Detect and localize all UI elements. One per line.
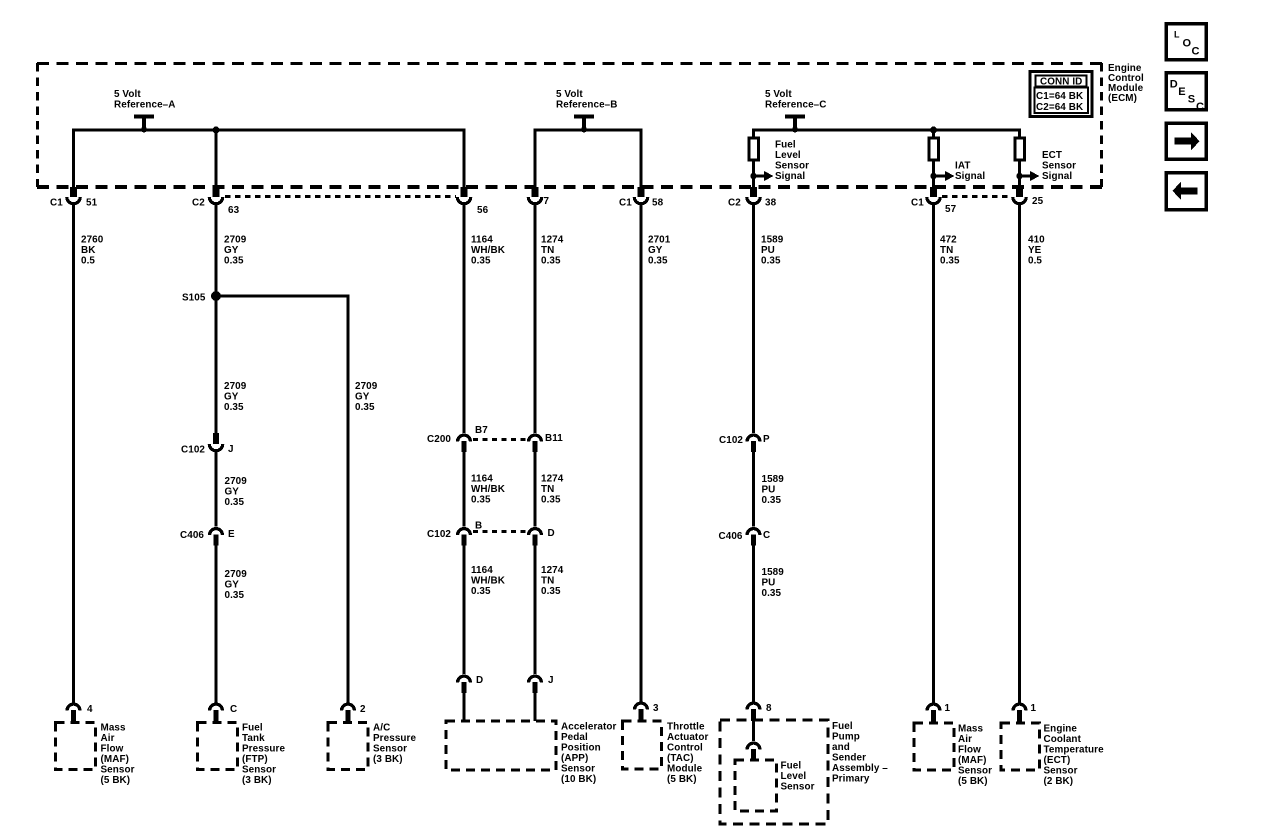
svg-text:TN: TN <box>541 484 554 495</box>
wire 1164 WH/BK 0.35 label (mid) <box>471 474 506 506</box>
svg-text:2709: 2709 <box>355 381 378 392</box>
svg-text:Control: Control <box>667 743 703 754</box>
svg-text:472: 472 <box>940 235 957 246</box>
wire inside fuel pump assembly <box>752 720 755 741</box>
svg-text:GY: GY <box>648 245 663 256</box>
svg-text:B11: B11 <box>545 433 563 444</box>
svg-text:(APP): (APP) <box>561 753 588 764</box>
svg-text:ECT: ECT <box>1042 150 1062 161</box>
svg-text:S: S <box>1188 94 1195 106</box>
wire 1274 TN 0.35 label (mid) <box>541 474 564 506</box>
svg-text:Reference–A: Reference–A <box>114 100 175 111</box>
svg-text:1274: 1274 <box>541 235 564 246</box>
wire 472 TN 0.35 label <box>940 235 960 267</box>
svg-text:D: D <box>548 528 555 539</box>
svg-text:Sensor: Sensor <box>242 765 276 776</box>
svg-text:0.35: 0.35 <box>471 256 491 267</box>
connector C2 pin 63 <box>209 187 222 204</box>
svg-text:C1: C1 <box>50 198 63 209</box>
terminal 8 (fuel pump assembly) <box>747 703 760 721</box>
svg-text:TN: TN <box>940 245 953 256</box>
resistor element (ECT sense) <box>1015 138 1025 160</box>
svg-text:WH/BK: WH/BK <box>471 576 506 587</box>
svg-text:(ECM): (ECM) <box>1108 93 1137 104</box>
wire col2 C406 E to FTP <box>215 546 218 703</box>
ECM label <box>1108 63 1144 104</box>
svg-text:Mass: Mass <box>958 724 984 735</box>
connector C406 pin C <box>747 529 760 546</box>
svg-text:Module: Module <box>667 764 703 775</box>
svg-text:C: C <box>1192 46 1200 58</box>
node: wire A / C2 column junction <box>213 127 220 134</box>
wire 1589 PU 0.35 label (mid) <box>762 474 785 506</box>
svg-text:Tank: Tank <box>242 733 265 744</box>
svg-text:0.35: 0.35 <box>762 495 782 506</box>
svg-text:J: J <box>548 675 554 686</box>
svg-text:and: and <box>832 742 850 753</box>
svg-text:Engine: Engine <box>1044 724 1078 735</box>
A/C pressure sensor box <box>328 723 368 770</box>
svg-text:Sender: Sender <box>832 753 866 764</box>
svg-text:C406: C406 <box>719 531 743 542</box>
svg-text:0.35: 0.35 <box>471 495 491 506</box>
wire 2709 GY 0.35 label (E-C) <box>225 569 248 601</box>
svg-text:0.5: 0.5 <box>81 256 95 267</box>
svg-text:(FTP): (FTP) <box>242 754 268 765</box>
svg-text:5 Volt: 5 Volt <box>556 89 583 100</box>
svg-text:0.35: 0.35 <box>541 495 561 506</box>
svg-text:Sensor: Sensor <box>1042 161 1076 172</box>
terminal 3 (TAC module) <box>635 703 648 722</box>
svg-text:1589: 1589 <box>762 567 785 578</box>
svg-text:C2: C2 <box>192 198 205 209</box>
wire col5 (2701 GY) <box>640 205 643 702</box>
svg-text:Fuel: Fuel <box>242 723 263 734</box>
svg-text:GY: GY <box>225 580 240 591</box>
svg-text:2709: 2709 <box>225 569 248 580</box>
MAF sensor box (left) <box>56 723 96 770</box>
svg-text:Level: Level <box>781 771 807 782</box>
svg-text:1274: 1274 <box>541 474 564 485</box>
svg-text:57: 57 <box>945 204 957 215</box>
wire terminal J to APP box <box>534 692 537 721</box>
connector C102 pin B <box>458 529 471 546</box>
ECM dashed box (Engine Control Module outline) <box>37 63 1102 187</box>
svg-text:Flow: Flow <box>101 744 124 755</box>
svg-text:(MAF): (MAF) <box>101 754 129 765</box>
svg-text:C1: C1 <box>619 198 632 209</box>
svg-text:Actuator: Actuator <box>667 732 708 743</box>
svg-text:(3 BK): (3 BK) <box>373 754 403 765</box>
wire col2 S105 to C102 J <box>215 296 218 433</box>
wire 1274 TN 0.35 label (top) <box>541 235 564 267</box>
svg-text:WH/BK: WH/BK <box>471 484 506 495</box>
svg-text:C102: C102 <box>427 529 451 540</box>
svg-text:410: 410 <box>1028 235 1045 246</box>
svg-text:0.35: 0.35 <box>762 588 782 599</box>
svg-text:Accelerator: Accelerator <box>561 722 616 733</box>
splice S105 <box>211 291 221 301</box>
svg-text:J: J <box>228 444 234 455</box>
connector C102 pin J <box>209 433 222 451</box>
svg-text:2: 2 <box>360 704 366 715</box>
dotted link C1 57 to 25 <box>942 195 1011 198</box>
wire col8 (410 YE) <box>1018 205 1021 703</box>
svg-text:C1: C1 <box>911 198 924 209</box>
svg-text:D: D <box>476 675 483 686</box>
svg-text:BK: BK <box>81 245 96 256</box>
svg-text:0.35: 0.35 <box>225 590 245 601</box>
svg-text:3: 3 <box>653 703 659 714</box>
svg-text:E: E <box>228 529 235 540</box>
svg-text:P: P <box>763 434 770 445</box>
svg-text:1589: 1589 <box>761 235 784 246</box>
wire branch S105 to A/C column <box>216 296 348 703</box>
svg-text:1164: 1164 <box>471 474 493 485</box>
dotted link C2 63 to 56 <box>225 195 456 198</box>
wire col4 B11 to D <box>534 452 537 527</box>
svg-text:B: B <box>475 521 482 532</box>
wire 410 YE 0.5 label <box>1028 235 1045 267</box>
svg-text:C: C <box>1196 101 1204 113</box>
svg-text:C102: C102 <box>181 445 205 456</box>
svg-text:Assembly –: Assembly – <box>832 763 888 774</box>
svg-text:Pump: Pump <box>832 732 860 743</box>
svg-text:O: O <box>1183 38 1192 50</box>
wire 2709 GY 0.35 label (below S105 left) <box>224 381 247 413</box>
svg-text:C2=64 BK: C2=64 BK <box>1036 102 1084 113</box>
dotted link C102 B to D <box>473 530 527 533</box>
wire col3 C102 B to terminal D <box>463 546 466 675</box>
svg-text:Air: Air <box>101 733 115 744</box>
svg-text:Flow: Flow <box>958 745 981 756</box>
svg-text:5 Volt: 5 Volt <box>765 89 792 100</box>
wire col4 D to terminal J <box>534 546 537 675</box>
bus wire A (5V ref A) <box>74 130 465 188</box>
svg-text:WH/BK: WH/BK <box>471 245 506 256</box>
5 Volt Reference-A symbol <box>114 89 175 133</box>
terminal J (APP sensor) <box>529 676 542 693</box>
connector C102 pin P <box>747 435 760 452</box>
resistor element (fuel level sense) <box>749 138 759 160</box>
svg-text:Reference–C: Reference–C <box>765 100 826 111</box>
svg-text:(ECT): (ECT) <box>1044 755 1071 766</box>
svg-text:Sensor: Sensor <box>1044 766 1078 777</box>
wire 2709 GY 0.35 label (top) <box>224 235 247 267</box>
svg-text:2709: 2709 <box>224 381 247 392</box>
svg-text:PU: PU <box>761 245 775 256</box>
svg-text:0.35: 0.35 <box>471 586 491 597</box>
svg-text:0.35: 0.35 <box>224 256 244 267</box>
terminal 4 (MAF left) <box>67 704 80 724</box>
svg-text:1164: 1164 <box>471 235 493 246</box>
svg-text:Fuel: Fuel <box>775 140 796 151</box>
svg-text:Sensor: Sensor <box>101 765 135 776</box>
svg-text:1: 1 <box>945 703 951 714</box>
svg-text:56: 56 <box>477 205 489 216</box>
svg-text:GY: GY <box>355 392 370 403</box>
svg-text:L: L <box>1174 30 1180 40</box>
wire col1 MAF signal <box>72 205 75 703</box>
svg-text:Pressure: Pressure <box>373 733 416 744</box>
connector pin D <box>529 529 542 546</box>
TAC module box <box>623 721 662 769</box>
5 Volt Reference-B symbol <box>556 89 617 133</box>
inner terminal (fuel level sensor) <box>747 743 760 761</box>
wire 2709 GY 0.35 label (J-E) <box>225 476 248 508</box>
svg-text:Sensor: Sensor <box>561 764 595 775</box>
terminal 1 (ECT sensor) <box>1013 704 1026 724</box>
wire 1164 WH/BK 0.35 label (lower) <box>471 565 506 597</box>
wire col6 (1589 PU) upper <box>752 205 755 433</box>
svg-text:1589: 1589 <box>762 474 785 485</box>
svg-text:4: 4 <box>87 704 93 715</box>
connector C200 pin B7 <box>458 435 471 452</box>
svg-text:0.35: 0.35 <box>224 402 244 413</box>
MAF sensor box (right) <box>914 723 954 770</box>
svg-text:(5 BK): (5 BK) <box>958 776 988 787</box>
svg-text:Reference–B: Reference–B <box>556 100 617 111</box>
svg-text:D: D <box>1170 79 1178 91</box>
APP sensor box <box>446 721 556 770</box>
dotted link C200 B7 to B11 <box>473 438 527 441</box>
svg-text:(2 BK): (2 BK) <box>1044 776 1074 787</box>
svg-text:C: C <box>763 530 770 541</box>
wire terminal D to APP box <box>463 692 466 721</box>
svg-text:IAT: IAT <box>955 161 970 172</box>
svg-text:TN: TN <box>541 576 554 587</box>
connector C406 pin E <box>210 529 223 546</box>
node: wire C / IAT column junction <box>930 127 937 134</box>
ECT sensor box <box>1001 723 1040 770</box>
svg-text:2709: 2709 <box>224 235 247 246</box>
bus wire B (5V ref B) <box>535 130 641 188</box>
svg-text:Mass: Mass <box>101 723 127 734</box>
svg-text:2760: 2760 <box>81 235 104 246</box>
svg-text:GY: GY <box>224 245 239 256</box>
svg-text:63: 63 <box>228 205 240 216</box>
connector pin 7 <box>528 187 541 204</box>
wire col2 upper (C2 63 to S105) <box>215 205 218 296</box>
svg-text:Sensor: Sensor <box>781 782 815 793</box>
wire col4 (1274 TN) upper <box>534 205 537 433</box>
svg-text:58: 58 <box>652 198 664 209</box>
svg-text:38: 38 <box>765 198 777 209</box>
arrow: ECT Sensor Signal <box>1016 150 1076 182</box>
svg-text:1274: 1274 <box>541 565 564 576</box>
wire col6 P to C406 C <box>752 452 755 527</box>
svg-text:0.35: 0.35 <box>648 256 668 267</box>
svg-text:8: 8 <box>766 703 772 714</box>
svg-text:25: 25 <box>1032 196 1044 207</box>
arrow: Fuel Level Sensor Signal <box>750 140 809 183</box>
wire col7 (472 TN) <box>932 205 935 703</box>
svg-text:0.35: 0.35 <box>761 256 781 267</box>
svg-text:Fuel: Fuel <box>832 721 853 732</box>
terminal C (FTP) <box>210 704 223 724</box>
svg-text:Pressure: Pressure <box>242 744 285 755</box>
svg-text:Signal: Signal <box>775 171 805 182</box>
svg-text:(10 BK): (10 BK) <box>561 774 596 785</box>
svg-text:0.35: 0.35 <box>225 497 245 508</box>
svg-text:0.35: 0.35 <box>541 256 561 267</box>
svg-text:2701: 2701 <box>648 235 671 246</box>
svg-text:51: 51 <box>86 198 98 209</box>
Fuel pump and sender assembly box <box>720 720 828 824</box>
connector pin 25 <box>1013 187 1026 204</box>
svg-text:YE: YE <box>1028 245 1042 256</box>
terminal D (APP sensor) <box>458 676 471 693</box>
svg-text:TN: TN <box>541 245 554 256</box>
svg-text:0.35: 0.35 <box>355 402 375 413</box>
svg-text:Throttle: Throttle <box>667 722 705 733</box>
svg-text:CONN ID: CONN ID <box>1040 77 1082 88</box>
svg-text:C102: C102 <box>719 435 743 446</box>
wire 2709 GY 0.35 label (branch) <box>355 381 378 413</box>
terminal 2 (A/C pressure sensor) <box>342 704 355 724</box>
svg-text:(5 BK): (5 BK) <box>101 775 131 786</box>
DESC nav button <box>1166 73 1206 114</box>
wire 1589 PU 0.35 label (top) <box>761 235 784 267</box>
svg-text:(5 BK): (5 BK) <box>667 774 697 785</box>
svg-text:(MAF): (MAF) <box>958 755 986 766</box>
svg-text:C1=64 BK: C1=64 BK <box>1036 91 1084 102</box>
svg-text:Signal: Signal <box>955 171 985 182</box>
CONN ID table <box>1030 72 1092 117</box>
wire 2760 BK 0.5 label <box>81 235 104 267</box>
terminal 1 (MAF right) <box>927 704 940 724</box>
svg-text:E: E <box>1178 86 1185 98</box>
svg-text:Sensor: Sensor <box>775 161 809 172</box>
svg-text:PU: PU <box>762 578 776 589</box>
wire 1274 TN 0.35 label (lower) <box>541 565 564 597</box>
wire 1164 WH/BK 0.35 label (top) <box>471 235 506 267</box>
connector pin 56 <box>457 187 470 204</box>
svg-text:GY: GY <box>224 392 239 403</box>
svg-text:(3 BK): (3 BK) <box>242 775 272 786</box>
svg-text:C2: C2 <box>728 198 741 209</box>
resistor element (IAT sense) <box>929 138 939 160</box>
svg-text:Level: Level <box>775 150 801 161</box>
svg-text:0.35: 0.35 <box>541 586 561 597</box>
svg-text:Primary: Primary <box>832 774 870 785</box>
LOC nav button <box>1166 24 1206 60</box>
next-page arrow button <box>1166 123 1206 159</box>
svg-text:0.35: 0.35 <box>940 256 960 267</box>
svg-text:7: 7 <box>544 196 550 207</box>
svg-text:C: C <box>230 704 237 715</box>
connector C1 pin 58 <box>634 187 647 204</box>
svg-text:Position: Position <box>561 743 601 754</box>
svg-text:GY: GY <box>225 487 240 498</box>
svg-text:0.5: 0.5 <box>1028 256 1042 267</box>
svg-text:C200: C200 <box>427 434 451 445</box>
wire col3 B7 to C102 B <box>463 452 466 527</box>
svg-text:B7: B7 <box>475 425 488 436</box>
wire 1589 PU 0.35 label (lower) <box>762 567 785 599</box>
svg-text:Signal: Signal <box>1042 171 1072 182</box>
svg-text:PU: PU <box>762 485 776 496</box>
wire col6 C406 C to terminal 8 <box>752 546 755 702</box>
connector C1 pin 57 <box>927 187 940 204</box>
connector pin B11 <box>529 435 542 452</box>
connector C1 pin 51 <box>67 187 80 204</box>
FTP sensor box <box>198 723 238 770</box>
connector C2 pin 38 <box>747 187 760 204</box>
wire 2701 GY 0.35 label <box>648 235 671 267</box>
svg-text:5 Volt: 5 Volt <box>114 89 141 100</box>
5 Volt Reference-C symbol <box>765 89 826 133</box>
svg-text:(TAC): (TAC) <box>667 753 694 764</box>
svg-text:C406: C406 <box>180 530 204 541</box>
svg-text:Temperature: Temperature <box>1044 745 1105 756</box>
svg-text:Fuel: Fuel <box>781 761 802 772</box>
svg-text:A/C: A/C <box>373 723 390 734</box>
arrow: IAT Signal <box>930 161 985 183</box>
svg-text:2709: 2709 <box>225 476 248 487</box>
svg-text:1: 1 <box>1031 703 1037 714</box>
Fuel level sensor inner box <box>735 760 777 811</box>
svg-text:S105: S105 <box>182 293 206 304</box>
svg-text:1164: 1164 <box>471 565 493 576</box>
svg-text:Sensor: Sensor <box>373 744 407 755</box>
svg-text:Sensor: Sensor <box>958 766 992 777</box>
svg-text:Coolant: Coolant <box>1044 734 1082 745</box>
svg-text:Pedal: Pedal <box>561 732 588 743</box>
svg-text:Air: Air <box>958 734 972 745</box>
wire col2 C102 J to C406 E <box>215 452 218 527</box>
prev-page arrow button <box>1166 173 1206 210</box>
wire col3 (1164 WH/BK) upper <box>463 205 466 433</box>
bus wire C (5V ref C) <box>754 130 1020 188</box>
